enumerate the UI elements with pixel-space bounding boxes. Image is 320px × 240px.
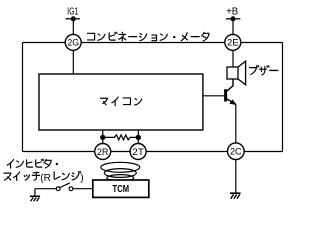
wire: right frame vertical bbox=[282, 43, 284, 152]
wire: speaker to transistor collector bbox=[227, 79, 233, 91]
node 2T bbox=[130, 144, 146, 160]
ground (left, chassis) bbox=[30, 189, 40, 202]
microcomputer box U1 マイコン bbox=[39, 74, 203, 130]
inhibitor switch SW1 bbox=[35, 183, 93, 191]
node 2E bbox=[225, 34, 241, 67]
wire: 2C to ground bbox=[235, 159, 237, 193]
resistor R1 between 2R and 2T lines bbox=[100, 130, 141, 144]
buzzer speaker bbox=[227, 61, 246, 85]
wire: top bus from left frame corner through 2G and 2E to right frame corner bbox=[23, 42, 283, 44]
node 2G bbox=[65, 34, 81, 74]
svg-text:): ) bbox=[80, 173, 83, 184]
svg-text:2C: 2C bbox=[230, 146, 242, 156]
svg-text:2R: 2R bbox=[97, 147, 109, 157]
svg-text:2E: 2E bbox=[227, 38, 239, 48]
label インヒビタ・ bbox=[7, 159, 58, 168]
wire: emitter down to 2C bbox=[235, 104, 237, 143]
wire: left frame vertical bbox=[22, 43, 24, 152]
wire: bottom bus through 2R 2T 2C bbox=[23, 151, 283, 153]
terminal +B bbox=[226, 7, 240, 43]
svg-text:IG1: IG1 bbox=[67, 7, 79, 18]
node 2C bbox=[228, 143, 245, 160]
terminal IG1 bbox=[66, 7, 80, 43]
label コンビネーション・メータ bbox=[87, 32, 208, 41]
node 2R bbox=[95, 144, 111, 160]
svg-text:+B: +B bbox=[226, 7, 238, 18]
svg-text:2G: 2G bbox=[67, 38, 79, 48]
ground (right, chassis) bbox=[230, 193, 241, 199]
transistor Q1 bbox=[203, 89, 237, 105]
svg-text:TCM: TCM bbox=[113, 184, 130, 195]
svg-text:(R: (R bbox=[40, 173, 51, 184]
TCM box bbox=[93, 180, 149, 197]
label ブザー bbox=[250, 66, 278, 75]
label スイッチ(Rレンジ) bbox=[4, 171, 84, 184]
svg-text:2T: 2T bbox=[132, 147, 144, 157]
harness connector ellipses bbox=[101, 162, 140, 181]
